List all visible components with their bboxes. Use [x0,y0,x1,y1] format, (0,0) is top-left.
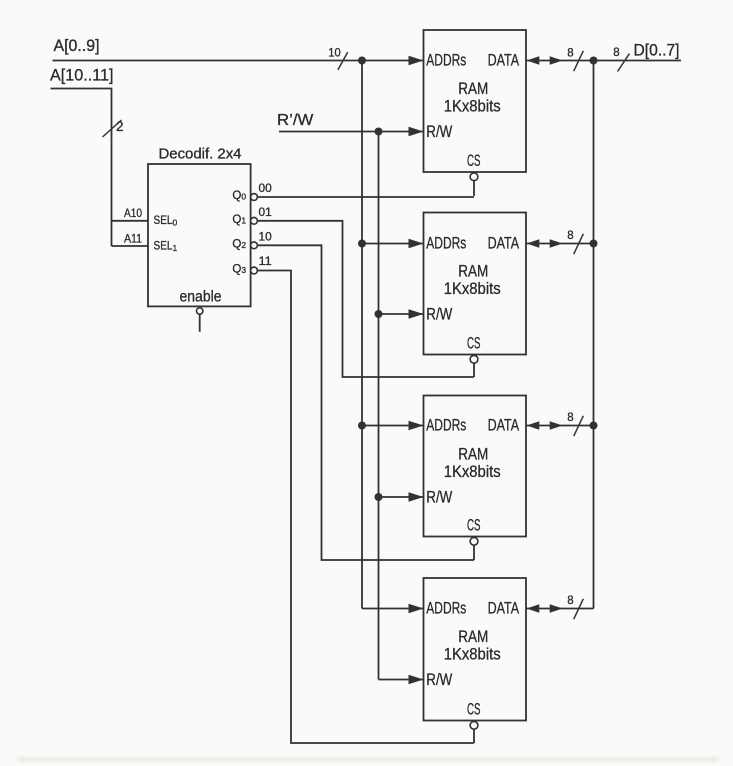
RAM2 label RAM [458,262,488,280]
svg-text:Q1: Q1 [232,214,246,226]
arrowhead ADDRs RAM3 [409,421,424,430]
pin label Q1 [232,214,246,226]
svg-text:CS: CS [467,517,481,535]
wire R/W to RAM3 [379,496,424,498]
RAM2 label 1Kx8bits [444,280,501,298]
svg-text:SEL0: SEL0 [154,215,178,228]
svg-text:DATA: DATA [488,51,520,69]
svg-text:ADDRs: ADDRs [426,234,466,252]
svg-text:R/W: R/W [426,489,452,507]
junction A bus RAM2 [358,240,366,248]
RAM3 label 1Kx8bits [444,463,501,481]
net label 00 [259,183,272,195]
enable stub wire [199,314,201,332]
output bubble Q3 [251,267,258,274]
svg-text:1Kx8bits: 1Kx8bits [444,645,501,663]
RAM4 label RAM [458,628,488,646]
bus width slash 8 RAM1 [567,48,583,72]
arrowhead R/W RAM4 [409,675,424,684]
svg-text:enable: enable [180,289,222,306]
wire R/W vertical [378,132,380,680]
net label A[0..9] [54,37,100,55]
wire A[0..9] bus horizontal [53,60,424,62]
svg-text:R/W: R/W [426,123,452,141]
wire D bus top to D[0..7] [526,60,681,62]
net label 11 [259,256,272,268]
arrowhead R/W RAM1 [409,127,424,136]
svg-text:10: 10 [259,231,272,243]
junction A bus branch [358,57,366,65]
junction A bus RAM3 [358,422,366,430]
wire DATA RAM2 to bus [526,243,594,245]
RAM1 pin label CS [467,152,481,170]
net label D[0..7] [634,41,680,59]
RAM U5 RAM4 box [424,578,527,721]
bidirectional arrowheads DATA RAM4 [527,604,563,613]
RAM1 label RAM [458,80,488,98]
wire DATA RAM3 to bus [526,425,594,427]
wire R/W to RAM4 [379,679,424,681]
svg-text:CS: CS [467,152,481,170]
RAM1 label 1Kx8bits [444,97,501,115]
svg-text:Q2: Q2 [232,239,246,251]
wire A bus to RAM3 [362,425,424,427]
arrowhead R/W RAM2 [409,309,424,318]
svg-text:1Kx8bits: 1Kx8bits [444,97,501,115]
net label A10 [124,206,142,220]
RAM4 pin label DATA [488,599,520,617]
RAM1 pin label ADDRs [426,51,466,69]
bus width slash 10 [328,46,347,70]
bus width slash 8 RAM2 [567,230,583,254]
svg-text:CS: CS [467,335,481,353]
svg-text:DATA: DATA [488,416,520,434]
wire Q0 to CS RAM1 [257,196,474,198]
pin label Q0 [232,190,246,202]
junction D bus RAM2 [590,240,598,248]
svg-text:RAM: RAM [458,80,488,98]
RAM4 pin label CS [467,701,481,719]
svg-text:8: 8 [567,595,573,607]
RAM4 label 1Kx8bits [444,645,501,663]
svg-text:A[10..11]: A[10..11] [50,67,114,85]
output bubble Q1 [251,217,258,224]
junction R/W RAM3 [375,493,383,501]
arrowhead ADDRs RAM4 [409,604,424,613]
bus width slash 2 [103,119,124,137]
svg-text:8: 8 [567,412,573,424]
RAM1 CS bubble [470,173,478,181]
svg-text:R’/W: R’/W [277,112,314,129]
bidirectional arrowheads DATA RAM2 [527,239,563,248]
pin label Q3 [232,264,246,276]
svg-text:ADDRs: ADDRs [426,51,466,69]
RAM2 pin label DATA [488,234,520,252]
net label A[10..11] [50,67,114,85]
bus width slash 8 RAM4 [567,595,583,619]
svg-text:RAM: RAM [458,445,488,463]
RAM3 pin label CS [467,517,481,535]
arrowhead R/W RAM3 [409,492,424,501]
RAM2 CS stub wire [473,363,475,377]
svg-text:A[0..9]: A[0..9] [54,37,100,55]
wire DATA RAM4 to bus [526,608,594,610]
junction D bus top [590,57,598,65]
junction R/W branch [375,128,383,136]
svg-text:1Kx8bits: 1Kx8bits [444,280,501,298]
wire A bus to RAM4 [362,608,424,610]
svg-text:8: 8 [567,48,573,60]
RAM1 pin label R/W [426,123,452,141]
junction D bus RAM3 [590,422,598,430]
RAM3 pin label ADDRs [426,416,466,434]
net label 01 [259,207,272,219]
RAM4 CS stub wire [473,729,475,743]
net label A11 [124,231,142,245]
RAM3 CS bubble [470,537,478,545]
RAM U2 RAM1 box [424,30,527,172]
svg-text:R/W: R/W [426,671,452,689]
RAM2 pin label CS [467,335,481,353]
junction R/W RAM2 [375,310,383,318]
RAM2 pin label R/W [426,306,452,324]
svg-text:DATA: DATA [488,234,520,252]
wire R/W to RAM2 [379,313,424,315]
RAM U4 RAM3 box [424,396,527,537]
wire Q2 to CS RAM3 [257,245,474,560]
svg-text:DATA: DATA [488,599,520,617]
RAM1 CS stub wire [473,181,475,196]
RAM U3 RAM2 box [424,213,527,355]
svg-text:11: 11 [259,256,272,268]
svg-text:00: 00 [259,183,272,195]
RAM4 CS bubble [470,721,478,729]
enable pin bubble [197,308,203,314]
wire A[10..11] [51,89,112,247]
RAM4 pin label ADDRs [426,599,466,617]
svg-text:A11: A11 [124,231,142,245]
svg-text:RAM: RAM [458,262,488,280]
output bubble Q0 [251,194,258,201]
wire Q1 to CS RAM2 [257,221,474,377]
pin label SEL0 [154,215,178,228]
svg-text:8: 8 [567,230,573,242]
svg-text:10: 10 [328,46,341,60]
wire R'/W horizontal [279,131,424,133]
pin label SEL1 [154,240,178,253]
pin label Q2 [232,239,246,251]
RAM3 pin label R/W [426,489,452,507]
svg-text:D[0..7]: D[0..7] [634,41,680,59]
decoder U1 title Decodif. 2x4 [159,147,242,163]
svg-text:ADDRs: ADDRs [426,599,466,617]
arrowhead ADDRs RAM2 [409,239,424,248]
bus width slash 8 RAM3 [567,412,583,436]
net label R'/W [277,112,314,129]
wire A10 to SEL0 [112,220,149,222]
arrowhead ADDRs RAM1 [409,56,424,65]
wire A bus to RAM2 [362,243,424,245]
pin label enable [180,289,222,306]
wire A bus vertical [361,61,363,609]
svg-text:CS: CS [467,701,481,719]
RAM4 pin label R/W [426,671,452,689]
svg-text:Q3: Q3 [232,264,246,276]
output bubble Q2 [251,242,258,249]
svg-text:R/W: R/W [426,306,452,324]
svg-text:Decodif. 2x4: Decodif. 2x4 [159,147,242,163]
decoder U1 box [148,164,251,306]
net label 10 [259,231,272,243]
bidirectional arrowheads DATA RAM1 [527,56,563,65]
svg-text:A10: A10 [124,206,142,220]
RAM2 pin label ADDRs [426,234,466,252]
svg-text:01: 01 [259,207,272,219]
bidirectional arrowheads DATA RAM3 [527,421,563,430]
wire A11 to SEL1 [112,245,149,247]
svg-text:8: 8 [613,47,619,59]
RAM3 label RAM [458,445,488,463]
svg-text:Q0: Q0 [232,190,246,202]
wire D bus vertical [593,61,595,609]
wire Q3 to CS RAM4 [257,271,474,744]
RAM3 pin label DATA [488,416,520,434]
svg-text:RAM: RAM [458,628,488,646]
svg-text:1Kx8bits: 1Kx8bits [444,463,501,481]
svg-text:SEL1: SEL1 [154,240,178,253]
RAM3 CS stub wire [473,545,475,560]
svg-text:ADDRs: ADDRs [426,416,466,434]
svg-text:2: 2 [116,119,124,134]
RAM2 CS bubble [470,355,478,363]
bus width slash 8 main [613,47,629,72]
RAM1 pin label DATA [488,51,520,69]
